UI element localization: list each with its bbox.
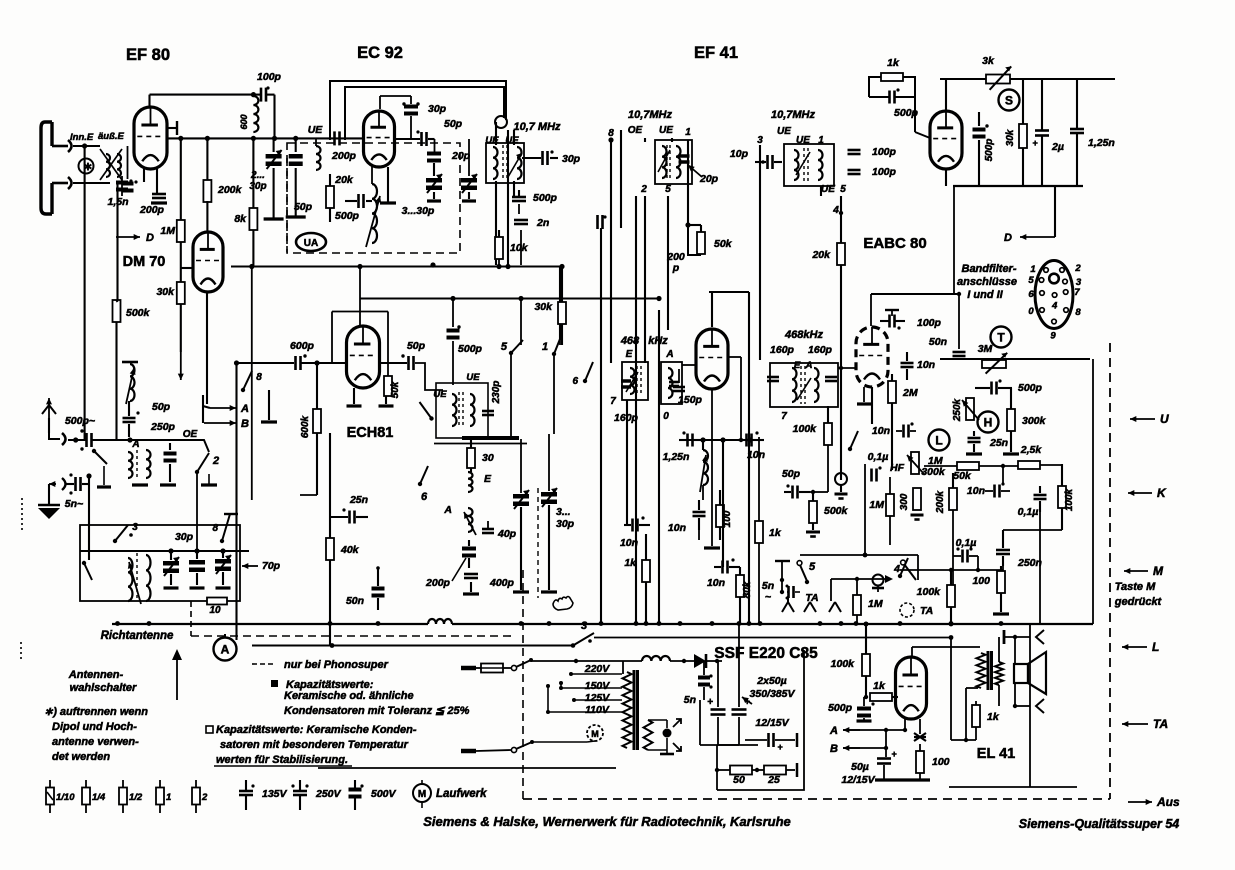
hand symbol — [553, 597, 573, 611]
ground tone — [966, 452, 982, 455]
IF box 468 first primary — [622, 362, 648, 400]
resistor 1M det — [886, 494, 894, 516]
svg-text:0,1µ: 0,1µ — [956, 537, 977, 549]
switch 3 psu — [571, 643, 576, 648]
capacitor 25n — [348, 511, 351, 524]
svg-text:8k: 8k — [234, 213, 247, 225]
svg-text:EF 41: EF 41 — [694, 44, 738, 62]
capacitor 500p osc — [357, 194, 360, 208]
svg-text:∗) auftrennen wenn: ∗) auftrennen wenn — [44, 706, 148, 718]
wire EABC grid line — [838, 367, 856, 369]
resistor 500k det — [809, 501, 817, 523]
wire vertical x601 — [600, 228, 602, 624]
ground ECH81 cathode a — [353, 388, 355, 404]
speaker frame top — [1003, 630, 1006, 644]
wire lower feed — [73, 182, 110, 184]
svg-text:30k: 30k — [1005, 129, 1016, 146]
svg-text:1M: 1M — [160, 225, 175, 237]
svg-text:A: A — [829, 725, 838, 737]
svg-text:5n~: 5n~ — [65, 498, 83, 510]
svg-text:2: 2 — [212, 455, 219, 467]
switch 5 ta — [797, 561, 802, 566]
svg-text:500p: 500p — [533, 192, 558, 204]
svg-text:350/385V: 350/385V — [750, 688, 796, 700]
heater fork arrows — [673, 719, 681, 727]
svg-text:10,7MHz: 10,7MHz — [771, 109, 816, 121]
capacitor 1.5n — [116, 181, 128, 185]
svg-text:4: 4 — [1051, 301, 1058, 312]
capacitor 50p right — [295, 138, 297, 152]
svg-text:10,7 MHz: 10,7 MHz — [513, 121, 561, 133]
band box UE UE — [436, 383, 488, 438]
circle H — [978, 412, 999, 433]
svg-text:0,1µ: 0,1µ — [1018, 506, 1039, 518]
svg-text:1: 1 — [542, 341, 548, 353]
wire ECH81 grid line — [320, 362, 346, 364]
pot 3k — [986, 75, 1010, 84]
svg-text:50n: 50n — [346, 595, 364, 607]
arrow D left — [116, 236, 140, 238]
capacitor 250n — [996, 549, 1010, 552]
svg-text:200p: 200p — [331, 150, 357, 162]
svg-text:300: 300 — [899, 493, 910, 510]
resistor 500k — [113, 300, 121, 322]
svg-text:8: 8 — [256, 372, 262, 383]
mains plug upper — [461, 666, 476, 671]
ground 100 — [704, 546, 720, 549]
capacitor 50p det — [791, 486, 794, 499]
wire below band box — [434, 443, 527, 445]
output transformer — [977, 653, 986, 688]
wire vertical x636 rail — [635, 196, 637, 624]
wire drop from tube — [945, 169, 947, 186]
svg-text:5: 5 — [809, 561, 816, 573]
svg-text:OE: OE — [628, 125, 643, 136]
capacitor 10n a — [745, 434, 748, 447]
svg-text:30p: 30p — [175, 531, 194, 543]
IF box 10.7 first — [486, 143, 524, 183]
wire main right bus y359 — [940, 358, 1090, 360]
svg-text:2: 2 — [1074, 263, 1081, 274]
svg-text:30p: 30p — [428, 103, 447, 115]
svg-text:1,25n: 1,25n — [1088, 137, 1115, 149]
wire ECH anode up — [359, 267, 361, 327]
svg-text:L: L — [935, 433, 942, 447]
svg-text:10n: 10n — [967, 485, 985, 497]
svg-text:E: E — [626, 349, 633, 360]
IF transformer 468 second — [792, 368, 797, 402]
coil E — [468, 472, 473, 492]
svg-text:TA: TA — [805, 592, 818, 604]
IF box 10.7 second — [784, 144, 834, 186]
wire rail x236 down — [235, 363, 237, 640]
wire grid drop EC92 — [434, 139, 436, 152]
svg-text:10k: 10k — [510, 242, 529, 254]
svg-text:10,7MHz: 10,7MHz — [628, 109, 673, 121]
svg-text:10n: 10n — [872, 425, 890, 437]
svg-text:40k: 40k — [340, 544, 360, 556]
svg-text:50µ: 50µ — [851, 761, 869, 773]
svg-text:100k: 100k — [793, 423, 818, 435]
capacitor 150p — [673, 386, 685, 389]
switch 6 upper — [429, 416, 433, 420]
svg-text:2,5k: 2,5k — [1020, 444, 1043, 456]
svg-text:1M: 1M — [868, 598, 883, 610]
wire tube top loop — [711, 292, 713, 327]
svg-text:100p: 100p — [872, 166, 897, 178]
svg-text:Siemens-Qualitätssuper 54: Siemens-Qualitätssuper 54 — [1019, 817, 1180, 831]
svg-text:OE: OE — [183, 429, 198, 440]
svg-text:ECH81: ECH81 — [347, 425, 394, 441]
wire outer loop top2 — [345, 87, 504, 140]
svg-text:3: 3 — [132, 522, 138, 533]
resistor 300k tone — [1007, 409, 1015, 431]
svg-text:6: 6 — [572, 376, 578, 387]
wire tube top right — [945, 79, 947, 111]
svg-text:12/15V: 12/15V — [755, 717, 789, 729]
svg-text:20k: 20k — [811, 249, 831, 261]
resistor 50k loop — [688, 225, 701, 255]
svg-text:250V: 250V — [315, 788, 342, 800]
antenna coupling coils — [100, 149, 122, 180]
trimmer 20p EF41 — [679, 154, 690, 158]
wire bracket AB — [202, 395, 204, 423]
svg-text:200k: 200k — [935, 490, 946, 514]
thick bus bar — [462, 436, 519, 440]
resistor 30k right — [1019, 124, 1027, 148]
wire EF80 cathode leads — [143, 169, 145, 182]
capacitor 30p above — [379, 96, 381, 109]
ground below 50p — [286, 215, 306, 218]
wire 600k to ECH grid — [300, 494, 317, 496]
note nur bei Phonosuper — [252, 663, 276, 665]
wire EL41 anode — [911, 647, 913, 657]
svg-text:20p: 20p — [451, 150, 471, 162]
svg-text:100: 100 — [972, 575, 990, 587]
IF box 468 second — [770, 363, 838, 407]
capacitor 50n phono — [372, 587, 385, 591]
svg-text:EC 92: EC 92 — [357, 44, 403, 62]
svg-text:1k: 1k — [887, 57, 900, 69]
dashed border bottom — [523, 798, 1110, 800]
svg-text:A: A — [131, 439, 139, 450]
note Kapazitaetswerte 2 — [206, 726, 213, 733]
switch 6 — [420, 466, 428, 484]
resistor 1k d — [642, 560, 650, 582]
svg-text:50p: 50p — [782, 468, 801, 480]
svg-text:10n: 10n — [668, 522, 686, 534]
arrow down 30k lead — [180, 352, 182, 380]
scale lamp M — [587, 725, 603, 741]
svg-text:UE: UE — [659, 125, 673, 136]
wire det rail — [864, 464, 866, 555]
svg-text:Kondensatoren mit Toleranz ≦ 2: Kondensatoren mit Toleranz ≦ 25% — [284, 705, 470, 717]
tube EC92 envelope — [364, 111, 395, 167]
arrow node B — [204, 422, 236, 424]
wire IF tube anode right — [728, 356, 741, 358]
svg-text:300k: 300k — [1022, 415, 1047, 427]
arrow node A — [203, 406, 210, 408]
svg-text:468kHz: 468kHz — [784, 329, 823, 341]
svg-text:400p: 400p — [489, 577, 515, 589]
diode el41 — [914, 733, 926, 741]
ground ECH81 cathode b — [385, 383, 387, 404]
circle S — [999, 90, 1020, 111]
svg-text:600k: 600k — [300, 415, 311, 438]
legend motor M Laufwerk — [413, 784, 431, 802]
resistor 30k — [180, 256, 182, 282]
svg-text:B: B — [241, 418, 249, 430]
svg-text:3M: 3M — [978, 343, 993, 355]
svg-text:5: 5 — [1028, 275, 1034, 286]
svg-text:E: E — [794, 360, 801, 371]
switch 4 ta — [901, 560, 906, 565]
switch 5 mid — [511, 340, 523, 353]
legend resistors wattage — [49, 780, 51, 788]
svg-text:30p: 30p — [562, 153, 581, 165]
capacitor 40p — [482, 528, 494, 531]
svg-text:SSF E220 C85: SSF E220 C85 — [714, 645, 818, 662]
wire main chassis bus — [112, 623, 428, 625]
resistor 1M — [180, 138, 182, 220]
wire phono line right — [594, 637, 951, 639]
wire secondary leads — [998, 637, 1000, 662]
wire vertical x759 — [758, 437, 760, 521]
capacitor 50u — [877, 757, 891, 760]
svg-text:200p: 200p — [139, 204, 165, 216]
ground input shunt — [103, 466, 105, 485]
svg-text:80k: 80k — [742, 581, 753, 598]
wire B+ feed — [950, 638, 952, 741]
fuse — [476, 667, 481, 669]
wire psu bottom — [699, 700, 701, 745]
svg-text:Keramische od. ähnliche: Keramische od. ähnliche — [284, 690, 414, 702]
wire psu return — [717, 650, 804, 790]
oscillator dashed box — [287, 143, 460, 253]
capacitor 200p low — [462, 547, 476, 551]
capacitor 20p — [427, 152, 441, 156]
svg-text:Bandfilter-: Bandfilter- — [962, 263, 1017, 275]
pointer circle 10.7MHz — [495, 116, 507, 128]
svg-text:200p: 200p — [425, 577, 451, 589]
coil EC92 osc — [372, 184, 377, 243]
svg-text:500p: 500p — [458, 343, 483, 355]
ground var cap — [462, 199, 476, 202]
wire DM70 cathode down — [206, 292, 208, 404]
svg-text:7: 7 — [781, 411, 787, 422]
resistor 50k af — [957, 462, 979, 470]
svg-text:3...30p: 3...30p — [402, 205, 435, 217]
svg-text:50: 50 — [733, 774, 745, 786]
svg-text:10p: 10p — [730, 148, 749, 160]
svg-text:300k: 300k — [921, 466, 946, 478]
tube EL41 envelope — [896, 657, 927, 719]
svg-text:3: 3 — [757, 135, 763, 146]
antenna feed connector upper — [52, 145, 68, 148]
capacitor 10n d — [631, 519, 634, 532]
svg-text:600p: 600p — [290, 340, 315, 352]
svg-text:500p: 500p — [335, 210, 360, 222]
resistor 100k ta — [947, 585, 955, 607]
svg-text:500p: 500p — [984, 139, 995, 162]
wire mains to trafo — [531, 660, 642, 662]
antenna feed connector lower — [52, 182, 68, 185]
svg-text:8: 8 — [1075, 307, 1081, 318]
coil detector — [703, 450, 708, 485]
capacitor 500p top — [888, 91, 891, 104]
ground EABC cathode — [863, 387, 865, 402]
svg-text:Taste M: Taste M — [1115, 581, 1156, 593]
svg-text:Siemens & Halske, Wernerwerk f: Siemens & Halske, Wernerwerk für Radiote… — [423, 814, 791, 829]
svg-text:100p: 100p — [257, 71, 282, 83]
osc transformer lower — [128, 558, 133, 601]
svg-text:A: A — [443, 504, 452, 516]
rectifier diode — [642, 656, 670, 661]
svg-text:2µ: 2µ — [1051, 141, 1064, 153]
circle T — [991, 327, 1012, 348]
pot 3M tone — [982, 360, 1006, 368]
coil UE left with cap — [333, 131, 336, 145]
IF box EF41 input — [655, 140, 692, 184]
trimmer var cap — [426, 178, 442, 183]
wire vertical rail x85 — [84, 146, 86, 440]
arrow up feed — [176, 656, 178, 700]
svg-text:A: A — [665, 349, 673, 360]
wire af y570 — [900, 569, 1003, 571]
switch ta — [900, 558, 908, 576]
svg-text:L: L — [1152, 640, 1159, 654]
svg-text:0: 0 — [1028, 306, 1034, 317]
arrow D right — [1020, 236, 1055, 238]
switch 3 left — [113, 539, 117, 543]
svg-text:3: 3 — [581, 620, 587, 632]
wire ta y579 — [831, 578, 891, 580]
svg-text:9: 9 — [1050, 331, 1056, 342]
svg-text:500k: 500k — [824, 505, 849, 517]
wire input junction — [130, 439, 148, 441]
capacitor 250p — [164, 452, 177, 456]
speaker frame bottom — [1015, 705, 1030, 707]
star marker *) — [79, 159, 94, 174]
svg-text:1k: 1k — [769, 527, 782, 539]
capacitor 100p top — [260, 88, 263, 102]
svg-text:30k: 30k — [534, 301, 553, 313]
svg-text:8: 8 — [608, 128, 614, 139]
resistor 100k el — [862, 654, 870, 676]
svg-text:+: + — [891, 749, 897, 759]
wire bottom bus right — [953, 185, 1083, 187]
capacitor 5n~ — [74, 477, 77, 491]
wire cathode a — [904, 718, 906, 730]
trimmer tuning b — [541, 492, 557, 497]
svg-text:30p: 30p — [556, 518, 575, 530]
TA fork c — [829, 602, 841, 612]
svg-text:150V: 150V — [585, 680, 611, 692]
svg-text:25n: 25n — [989, 437, 1008, 449]
svg-text:250n: 250n — [1017, 557, 1042, 569]
speaker — [1014, 664, 1028, 683]
svg-text:100p: 100p — [872, 146, 897, 158]
ground triangle — [38, 508, 60, 519]
capacitor 200p cathode — [152, 193, 166, 196]
svg-text:M: M — [418, 789, 426, 800]
circle A antenna — [214, 638, 237, 661]
capacitor 500p osc2 — [447, 329, 460, 333]
IF transformer 468 first — [630, 368, 635, 394]
band coil set — [128, 452, 133, 478]
svg-text:A: A — [221, 642, 230, 656]
ground 400p — [463, 592, 479, 595]
capacitor 50p band — [123, 417, 136, 420]
lamp dot — [663, 729, 672, 738]
svg-text:70p: 70p — [262, 560, 281, 572]
svg-text:1k: 1k — [987, 711, 1000, 723]
lower switch — [84, 563, 92, 580]
capacitor 25n tone — [968, 437, 981, 440]
ground bar el41 — [875, 778, 930, 781]
svg-text:160p: 160p — [808, 344, 833, 356]
capacitor 2u electrolytic — [1035, 129, 1049, 132]
wire DM70 top to rail — [206, 230, 209, 232]
switch mains — [511, 665, 516, 670]
wire outer loop top1 — [330, 81, 506, 140]
TA lamp dashed — [900, 603, 914, 617]
wire switch5 upper — [520, 299, 522, 346]
svg-text:Kapazitätswerte: Keramische Ko: Kapazitätswerte: Keramische Konden- — [216, 724, 417, 736]
input coil upper — [122, 361, 138, 364]
heater winding — [644, 720, 653, 750]
svg-text:500p: 500p — [1018, 382, 1043, 394]
wire det coil bottom — [702, 485, 704, 500]
tube EF41 IF envelope — [696, 329, 728, 389]
capacitor 230p — [482, 410, 494, 413]
ground mid — [268, 390, 270, 420]
arrow Aus — [1128, 801, 1152, 803]
switch 8 row — [222, 514, 230, 541]
ground trim 20p — [427, 199, 441, 202]
capacitor 2n — [514, 219, 528, 222]
wire vertical x659 rail — [658, 310, 660, 624]
resistor 1k out — [972, 705, 980, 727]
wire el41 bus — [1063, 623, 1093, 625]
wire upper feed — [73, 145, 100, 147]
svg-text:50k: 50k — [714, 238, 733, 250]
svg-text:25: 25 — [767, 774, 780, 786]
tube socket oval — [1035, 261, 1073, 329]
TA fork b — [804, 602, 816, 612]
svg-text:U: U — [1160, 412, 1169, 426]
IF box 468 first secondary — [661, 362, 682, 404]
svg-text:50k: 50k — [953, 470, 972, 482]
svg-text:Laufwerk: Laufwerk — [436, 788, 487, 800]
svg-text:werten für Stabilisierung.: werten für Stabilisierung. — [216, 754, 348, 766]
wire IF tube grid — [682, 364, 696, 366]
svg-text:10n: 10n — [917, 359, 935, 371]
svg-text:UE: UE — [308, 124, 324, 136]
resistor 25 — [764, 766, 786, 775]
svg-text:UE: UE — [433, 389, 447, 400]
wire y530 af — [1003, 529, 1062, 531]
resistor 200k — [206, 138, 208, 181]
capacitor 400p — [464, 573, 478, 576]
resistor 10k — [495, 237, 503, 259]
wire bottom EC92 region — [231, 265, 560, 267]
TA fork a — [782, 596, 794, 612]
svg-text:0: 0 — [663, 411, 669, 422]
svg-text:EF 80: EF 80 — [126, 46, 170, 64]
svg-text:D: D — [146, 232, 154, 244]
ground 300 — [911, 514, 924, 517]
